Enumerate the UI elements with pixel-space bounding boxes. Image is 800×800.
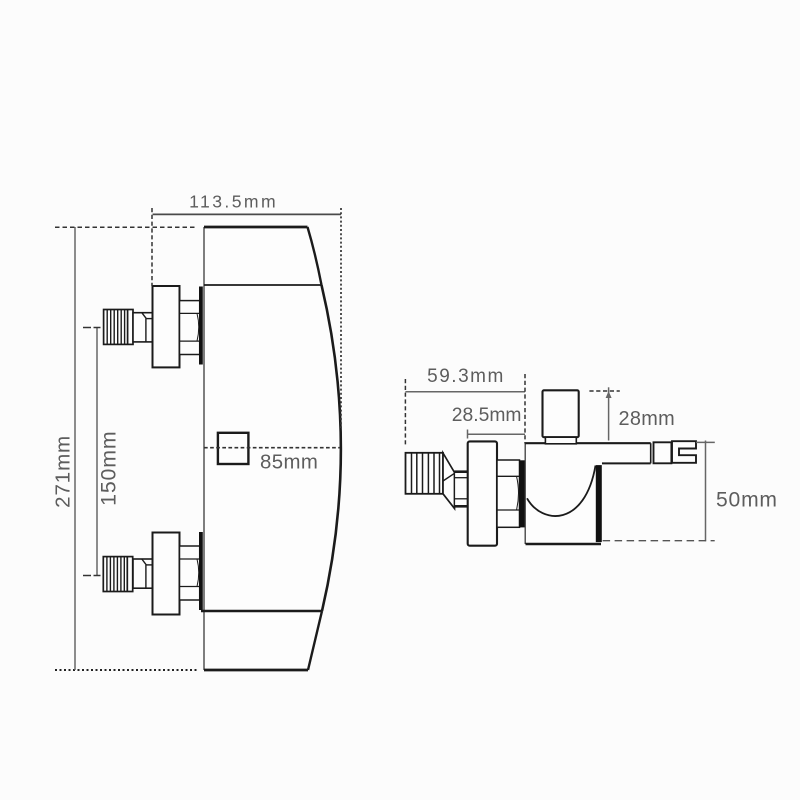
svg-text:271mm: 271mm — [51, 435, 74, 508]
svg-text:150mm: 150mm — [97, 431, 121, 506]
svg-text:113.5mm: 113.5mm — [189, 192, 278, 212]
svg-text:85mm: 85mm — [260, 452, 318, 474]
svg-text:59.3mm: 59.3mm — [427, 366, 505, 387]
svg-text:28.5mm: 28.5mm — [452, 405, 522, 426]
svg-text:50mm: 50mm — [716, 489, 778, 512]
svg-text:28mm: 28mm — [619, 408, 675, 430]
